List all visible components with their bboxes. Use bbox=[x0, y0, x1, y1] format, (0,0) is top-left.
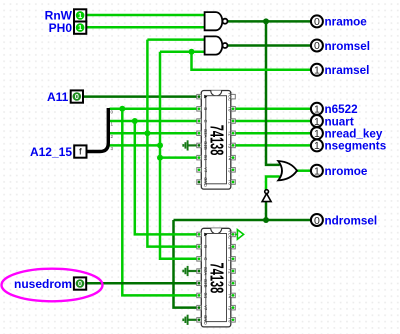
svg-text:1: 1 bbox=[314, 104, 320, 116]
svg-text:G1: G1 bbox=[203, 155, 208, 161]
svg-text:nsegments: nsegments bbox=[325, 140, 387, 153]
svg-text:A: A bbox=[203, 233, 208, 236]
svg-text:G2B: G2B bbox=[203, 279, 208, 288]
svg-text:Y5: Y5 bbox=[227, 305, 232, 311]
svg-text:Y2: Y2 bbox=[227, 131, 232, 137]
svg-text:1: 1 bbox=[78, 23, 82, 32]
svg-text:nramoe: nramoe bbox=[325, 16, 368, 29]
svg-text:Y2: Y2 bbox=[227, 268, 232, 274]
svg-text:Y6: Y6 bbox=[227, 317, 232, 323]
svg-text:0: 0 bbox=[314, 40, 320, 52]
svg-text:nread_key: nread_key bbox=[325, 128, 383, 141]
svg-text:A12_15: A12_15 bbox=[30, 145, 72, 159]
svg-text:B: B bbox=[203, 107, 208, 110]
svg-text:1: 1 bbox=[314, 140, 320, 152]
svg-text:C: C bbox=[203, 119, 208, 122]
svg-text:74138: 74138 bbox=[206, 263, 227, 294]
svg-text:nromoe: nromoe bbox=[325, 165, 368, 178]
svg-text:C: C bbox=[203, 257, 208, 260]
svg-text:Y1: Y1 bbox=[227, 256, 232, 262]
svg-text:GND: GND bbox=[203, 177, 208, 187]
svg-text:G2A: G2A bbox=[203, 267, 208, 276]
svg-text:1: 1 bbox=[314, 165, 320, 177]
svg-text:nromsel: nromsel bbox=[325, 40, 370, 53]
svg-text:f: f bbox=[79, 146, 82, 157]
svg-text:1: 1 bbox=[314, 128, 320, 140]
svg-text:PH0: PH0 bbox=[49, 21, 73, 35]
svg-text:Y3: Y3 bbox=[227, 143, 232, 149]
svg-text:1: 1 bbox=[78, 11, 82, 20]
svg-text:Y0: Y0 bbox=[227, 244, 232, 250]
svg-text:74138: 74138 bbox=[206, 125, 227, 156]
svg-text:Y3: Y3 bbox=[227, 281, 232, 287]
svg-text:VCC: VCC bbox=[227, 230, 232, 239]
svg-text:VCC: VCC bbox=[227, 92, 232, 101]
svg-text:Y4: Y4 bbox=[227, 293, 232, 299]
svg-text:G1: G1 bbox=[203, 293, 208, 299]
svg-text:B: B bbox=[203, 245, 208, 248]
svg-text:nusedrom: nusedrom bbox=[14, 277, 72, 291]
svg-text:Y7: Y7 bbox=[203, 305, 208, 311]
svg-text:G2A: G2A bbox=[203, 129, 208, 138]
svg-text:0: 0 bbox=[78, 279, 82, 288]
svg-text:GND: GND bbox=[203, 315, 208, 325]
svg-text:Y6: Y6 bbox=[227, 179, 232, 185]
svg-text:A11: A11 bbox=[47, 90, 69, 104]
svg-text:Y4: Y4 bbox=[227, 155, 232, 161]
svg-text:nuart: nuart bbox=[325, 115, 354, 128]
svg-text:Y0: Y0 bbox=[227, 106, 232, 112]
svg-text:Y7: Y7 bbox=[203, 167, 208, 173]
svg-text:1: 1 bbox=[314, 65, 320, 77]
svg-text:ndromsel: ndromsel bbox=[325, 214, 378, 227]
svg-text:G2B: G2B bbox=[203, 141, 208, 150]
svg-text:Y5: Y5 bbox=[227, 167, 232, 173]
svg-text:nramsel: nramsel bbox=[325, 64, 370, 77]
svg-text:n6522: n6522 bbox=[325, 103, 359, 116]
svg-text:A: A bbox=[203, 95, 208, 98]
svg-text:1: 1 bbox=[314, 116, 320, 128]
svg-text:0: 0 bbox=[314, 215, 320, 227]
svg-text:0: 0 bbox=[75, 92, 79, 101]
svg-text:0: 0 bbox=[314, 16, 320, 28]
svg-text:Y1: Y1 bbox=[227, 118, 232, 124]
